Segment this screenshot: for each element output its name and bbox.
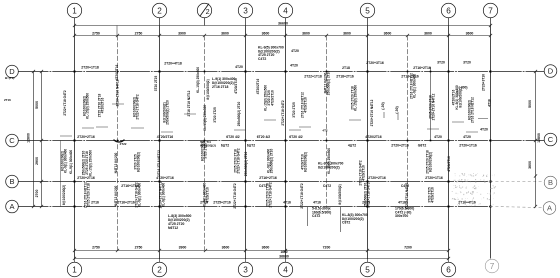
short beam lines below A (308, 207, 341, 232)
svg-text:2900: 2900 (35, 157, 39, 165)
svg-text:6ΔT2: 6ΔT2 (221, 143, 229, 147)
beam tag cluster vc B-A b (83, 182, 90, 208)
tick near x483 (478, 119, 488, 132)
axis stub 4 (top) (285, 18, 287, 26)
secondary vertical axis x=117.5 (117, 36, 119, 251)
svg-text:2T16 2T18 N2T12: 2T16 2T18 N2T12 (157, 150, 161, 176)
top overall dimension line 36600 (73, 22, 492, 28)
svg-text:2T20+3T16: 2T20+3T16 (366, 61, 384, 65)
svg-text:8@100/200(2): 8@100/200(2) (137, 152, 141, 172)
svg-text:2T22+1T18 G4T2: 2T22+1T18 G4T2 (136, 94, 140, 119)
secondary vertical axis x=326.5 (326, 36, 328, 207)
beam tag cluster vc C-B i (266, 149, 273, 174)
beam schedule block KL-300 (C-B band) (318, 162, 344, 170)
svg-text:2T18: 2T18 (342, 66, 350, 70)
svg-text:2T22+1T18 G4T2: 2T22+1T18 G4T2 (63, 90, 67, 115)
right dims 5000/3600/12800 (528, 70, 541, 208)
beam tag cluster vc B-A i (300, 183, 304, 208)
axis circle 3 (top) (238, 3, 252, 17)
beam schedule block KL-9 (D-C band) (212, 77, 235, 89)
axis stub /2 (top) (204, 18, 206, 26)
tag column x490.5 (488, 99, 492, 107)
axis circle A (left) (6, 200, 19, 213)
beam tag cluster vc D-C u (428, 93, 435, 120)
svg-text:36600: 36600 (278, 22, 288, 26)
beam tag cluster vc D-C d (115, 65, 119, 81)
svg-text:6T20 4/2: 6T20 4/2 (257, 135, 270, 139)
svg-text:4T20: 4T20 (235, 65, 243, 69)
svg-text:250x500(2) 2T20: 250x500(2) 2T20 (244, 152, 248, 177)
vertical axis line x=245.5 (245, 26, 247, 260)
beam tag cluster vc D-C g (154, 76, 158, 92)
svg-text:1: 1 (72, 6, 77, 15)
svg-text:8@100/200(2): 8@100/200(2) (304, 152, 308, 172)
beam tag cluster vc D-C j2 (206, 79, 210, 99)
svg-text:B=(T0): B=(T0) (5, 76, 14, 80)
beam tag cluster vc C-B g (233, 148, 240, 173)
svg-text:3600: 3600 (221, 32, 229, 36)
svg-text:6T20 4/2: 6T20 4/2 (289, 135, 302, 139)
svg-text:4T20: 4T20 (480, 128, 488, 132)
svg-text:300x700: 300x700 (395, 214, 408, 218)
beam labels above axis D (81, 61, 471, 70)
svg-text:4T20: 4T20 (291, 49, 299, 53)
beam labels below axis D (304, 75, 419, 79)
svg-text:8@100/200(2): 8@100/200(2) (429, 152, 433, 172)
svg-text:2T22+1T18 G4T2: 2T22+1T18 G4T2 (300, 183, 304, 208)
svg-text:2T22+1T18: 2T22+1T18 (304, 75, 322, 79)
svg-text:N6T12: N6T12 (168, 226, 178, 230)
svg-text:3900: 3900 (179, 246, 187, 250)
svg-text:4T20/2T16: 4T20/2T16 (256, 79, 260, 95)
beam labels above axis B (77, 176, 443, 180)
svg-text:C8T2: C8T2 (342, 221, 350, 225)
beam schedule block KL-8 below A (168, 214, 191, 230)
axis circle 5 (bottom) (367, 259, 369, 263)
left segment dims (35, 70, 43, 208)
svg-text:2T16: 2T16 (4, 98, 11, 102)
beam tag cluster vc B-A e (158, 181, 165, 208)
svg-text:5000: 5000 (528, 100, 532, 108)
svg-text:3T20 2T25: 3T20 2T25 (213, 107, 217, 123)
svg-text:2: 2 (157, 6, 162, 15)
svg-text:C4T2: C4T2 (258, 57, 266, 61)
axis circle 1 (top) (67, 3, 81, 17)
beam tag cluster vc B-A a (62, 185, 66, 205)
svg-text:B: B (548, 178, 553, 187)
axis line C (19, 140, 545, 142)
svg-text:4T18: 4T18 (488, 99, 492, 107)
beam tag cluster vc C-B d (133, 152, 140, 172)
svg-text:4: 4 (283, 265, 288, 274)
elevation mark (-30) x384 (381, 102, 385, 118)
svg-text:4T20: 4T20 (463, 135, 471, 139)
beam tag cluster vc D-C j (203, 105, 207, 131)
svg-text:2750: 2750 (92, 246, 100, 250)
svg-text:2T16 2T18 N2T12: 2T16 2T18 N2T12 (471, 97, 475, 123)
beam tag cluster vc D-C k (234, 78, 238, 94)
svg-text:4T20/2T16: 4T20/2T16 (101, 98, 105, 114)
svg-text:6: 6 (446, 6, 451, 15)
beam tag cluster vc D-C k2 (213, 107, 217, 123)
axis circle B (left) (6, 175, 19, 188)
partial column line x=430 (430, 67, 432, 141)
svg-text:250x500(2) 2T20: 250x500(2) 2T20 (327, 71, 331, 96)
beam tag cluster vc B-A h (265, 182, 272, 207)
svg-text:3T20: 3T20 (437, 61, 445, 65)
svg-text:3600: 3600 (343, 32, 351, 36)
axis stub 7 (top) (490, 18, 492, 26)
beam tag cluster vc B-A j (338, 184, 342, 204)
svg-text:N4T12 8@200: N4T12 8@200 (114, 185, 118, 206)
svg-text:2T20+2T16 N4T12: 2T20+2T16 N4T12 (405, 182, 409, 209)
axis circle B (right) (544, 176, 557, 189)
svg-text:6: 6 (446, 265, 451, 274)
svg-text:B: B (9, 177, 14, 186)
beam tag cluster vc D-C t (409, 73, 416, 99)
vertical axis line x=367.5 (367, 26, 369, 260)
left edge notes (4, 76, 14, 102)
axis circle 4 (top) (278, 3, 292, 17)
axis line B faint right end (490, 181, 544, 183)
beam tag cluster vc B-A f (202, 183, 209, 208)
svg-text:4T20/2T16: 4T20/2T16 (304, 97, 308, 113)
svg-text:2T25+2T16: 2T25+2T16 (213, 200, 231, 204)
svg-text:4T20/2T16: 4T20/2T16 (362, 165, 366, 181)
svg-text:KL-9(1) 300x400: KL-9(1) 300x400 (413, 74, 417, 99)
svg-text:A: A (9, 202, 14, 211)
beam schedule block below A (x395) (395, 207, 414, 219)
svg-text:2T16 2T18 N2T12: 2T16 2T18 N2T12 (187, 90, 191, 116)
axis stub 1 (top) (74, 18, 76, 26)
svg-text:7200: 7200 (404, 246, 412, 250)
svg-text:2T22+1T18 G4T2: 2T22+1T18 G4T2 (233, 183, 237, 208)
svg-text:2: 2 (206, 7, 210, 16)
svg-text:3T20 2T25: 3T20 2T25 (292, 102, 296, 118)
svg-text:3600: 3600 (262, 32, 270, 36)
beam tag cluster vc D-C h (162, 100, 169, 125)
vertical axis line x=448.5 (448, 26, 450, 260)
beam tag cluster vc C-B k (327, 148, 331, 174)
svg-text:3600: 3600 (222, 246, 230, 250)
svg-text:KL-15(3) 250x500: KL-15(3) 250x500 (88, 150, 92, 176)
axis circle C (left) (6, 134, 19, 147)
beam tag cluster vc C-B a (60, 149, 67, 174)
axis circle D (right) (544, 65, 557, 78)
beam tag cluster vc B-A k (363, 182, 370, 207)
svg-text:4T20/2T16: 4T20/2T16 (206, 187, 210, 203)
axis circle 6 (top) (441, 3, 455, 17)
svg-text:4T16: 4T16 (283, 200, 291, 204)
svg-text:3600: 3600 (528, 161, 532, 169)
svg-text:C4T2: C4T2 (323, 184, 331, 188)
svg-text:N4T12 8@200: N4T12 8@200 (114, 152, 118, 173)
svg-text:12800: 12800 (27, 133, 31, 143)
axis extension lines top (116, 26, 118, 36)
svg-text:4T20/2T16: 4T20/2T16 (431, 187, 435, 203)
beam schedule block above D (x258) (258, 46, 299, 61)
svg-text:4T22: 4T22 (119, 142, 126, 146)
svg-text:2T20+1T18: 2T20+1T18 (81, 65, 99, 69)
column nodes at grid intersections (74, 71, 492, 208)
axis circle 5 (top) (360, 3, 374, 17)
svg-text:7200: 7200 (323, 246, 331, 250)
svg-text:KL-15(3) 250x500: KL-15(3) 250x500 (354, 85, 358, 111)
axis line A (19, 206, 491, 208)
beam tag cluster vc D-C j3 (256, 79, 260, 95)
svg-text:8@100/200(2): 8@100/200(2) (458, 87, 462, 107)
axis stub 3 (top) (245, 18, 247, 26)
beam labels above axis C (77, 135, 471, 139)
svg-text:7: 7 (488, 6, 493, 15)
beam tag cluster vc D-C s (370, 99, 374, 126)
svg-text:2T20+1T16: 2T20+1T16 (425, 176, 443, 180)
svg-text:5: 5 (365, 265, 370, 274)
svg-text:2T16 2T18: 2T16 2T18 (212, 85, 229, 89)
svg-text:(-300): (-300) (458, 86, 467, 90)
vertical axis line 7 (490, 26, 492, 259)
svg-text:4: 4 (283, 6, 288, 15)
beam tag cluster vc D-C w (467, 97, 474, 123)
watermark speckles (452, 173, 496, 207)
svg-text:1650: 1650 (280, 250, 287, 254)
beam tag cluster vc B-A m (427, 187, 434, 203)
svg-text:KL-15(3) 250x500: KL-15(3) 250x500 (203, 105, 207, 131)
svg-text:4T2: 4T2 (322, 129, 328, 133)
axis circle 2 (bottom) (159, 259, 161, 263)
beam tag cluster vc D-C f (132, 94, 139, 119)
beam tag cluster vc D-C i2 (196, 67, 200, 93)
beam labels below axis C (221, 143, 477, 147)
beam schedule block KL-8 below A (x342) (342, 213, 368, 225)
axis circle 4 (bottom) (285, 259, 287, 263)
svg-text:4T20/2T16: 4T20/2T16 (270, 90, 274, 106)
rebar arc mark 4T22 below C (114, 140, 127, 146)
svg-text:2T20+2T16 N4T12: 2T20+2T16 N4T12 (432, 93, 436, 120)
svg-text:2T20+3T16: 2T20+3T16 (482, 74, 486, 91)
svg-text:250x500(2) 2T20: 250x500(2) 2T20 (166, 100, 170, 125)
svg-text:KL-9(1) 300x400: KL-9(1) 300x400 (69, 150, 73, 175)
svg-text:1: 1 (72, 265, 77, 274)
beam tag cluster vc C-B e (157, 150, 161, 176)
beam schedule block below A (x312) (312, 207, 331, 219)
svg-text:C: C (9, 136, 15, 145)
svg-text:2T20+2T16 N4T12: 2T20+2T16 N4T12 (370, 99, 374, 126)
svg-text:2: 2 (157, 265, 162, 274)
svg-text:3T20 2T25: 3T20 2T25 (204, 143, 208, 159)
beam tag cluster vc C-B l (358, 160, 365, 185)
svg-text:2T20+1T16: 2T20+1T16 (459, 143, 477, 147)
beam tag cluster vc D-C l (237, 102, 241, 127)
svg-text:250x500(2) 2T20: 250x500(2) 2T20 (270, 149, 274, 174)
beam labels above axis A (91, 200, 476, 204)
beam tag cluster vc C-B c (114, 152, 118, 173)
svg-text:4T20/2T16: 4T20/2T16 (447, 156, 451, 172)
vertical axis line x=74.5 (74, 26, 76, 260)
svg-text:6ΔT2: 6ΔT2 (247, 143, 255, 147)
svg-text:2T16: 2T16 (91, 200, 99, 204)
svg-text:C4T2: C4T2 (312, 214, 320, 218)
svg-text:2T16+2T16: 2T16+2T16 (413, 66, 431, 70)
beam labels below axis B (121, 184, 409, 188)
left edge wall line x=60 (60, 141, 62, 207)
svg-text:2750: 2750 (92, 32, 100, 36)
svg-text:4ΔT2: 4ΔT2 (348, 143, 356, 147)
beam tag cluster vc C-B j (300, 152, 307, 172)
beam tag cluster vc D-C r (350, 85, 357, 111)
tag column x484 (482, 74, 486, 91)
beam tag cluster vc D-C m (264, 85, 275, 111)
beam tag cluster vc C-B b (82, 150, 93, 176)
svg-text:2T16+2T16: 2T16+2T16 (117, 200, 135, 204)
svg-text:KL-9(1) 300x400: KL-9(1) 300x400 (64, 149, 68, 174)
svg-text:3600: 3600 (302, 32, 310, 36)
svg-text:2T20+2T16 N4T12: 2T20+2T16 N4T12 (116, 79, 120, 106)
axis stub 2 (top) (159, 18, 161, 26)
axis circle D (left) (6, 65, 19, 78)
svg-text:4T16: 4T16 (313, 200, 321, 204)
svg-text:5: 5 (365, 6, 370, 15)
svg-text:KL-9(1) 300x400: KL-9(1) 300x400 (138, 183, 142, 208)
axis circle C (right) (544, 133, 557, 146)
svg-text:D: D (9, 67, 15, 76)
beam tag cluster vc D-C q (323, 71, 330, 96)
beam tag cluster vc C-B f (200, 141, 207, 161)
svg-text:2T16+4T16: 2T16+4T16 (458, 200, 476, 204)
svg-text:8@100/200(2): 8@100/200(2) (62, 185, 66, 205)
beam tag cluster vc D-C e (116, 79, 120, 106)
svg-text:2T20+4T18: 2T20+4T18 (164, 62, 182, 66)
svg-text:2750: 2750 (135, 32, 143, 36)
leader tick lines (60, 104, 478, 136)
svg-text:4T20: 4T20 (434, 135, 442, 139)
svg-text:3600: 3600 (466, 32, 474, 36)
beam tag cluster vc C-B h (244, 152, 248, 177)
beam tag cluster vc B-A g (233, 183, 237, 208)
svg-text:2750: 2750 (135, 246, 143, 250)
axis line A faint right end (490, 207, 543, 208)
svg-text:A: A (547, 204, 552, 213)
axis circle 6 (bottom) (448, 259, 450, 263)
small dim 1650 (280, 250, 287, 254)
svg-text:KL-9(1) 300x400: KL-9(1) 300x400 (162, 183, 166, 208)
secondary vertical axis x=204.5 (204, 36, 206, 251)
svg-text:2T22+1T18 G4T2: 2T22+1T18 G4T2 (281, 100, 285, 125)
elevation mark (-300) x463 (458, 86, 468, 97)
axis circle A (right) (543, 202, 556, 215)
beam tag cluster vc D-C o (292, 102, 296, 118)
svg-text:2T16+2T16: 2T16+2T16 (259, 176, 277, 180)
axis circle 3 (bottom) (245, 259, 247, 263)
svg-text:3T20: 3T20 (463, 61, 471, 65)
svg-text:12800: 12800 (537, 133, 541, 143)
svg-text:3900: 3900 (178, 32, 186, 36)
svg-text:2T25 2T20 2T18: 2T25 2T20 2T18 (87, 183, 91, 207)
svg-text:(-30): (-30) (381, 102, 385, 109)
svg-text:3600: 3600 (262, 246, 270, 250)
svg-text:3600: 3600 (424, 32, 432, 36)
svg-text:C: C (548, 135, 554, 144)
svg-text:36600: 36600 (279, 254, 289, 258)
svg-text:4T20/2T16: 4T20/2T16 (157, 135, 174, 139)
svg-text:4T20/2T16: 4T20/2T16 (365, 135, 382, 139)
axis stub 6 (top) (448, 18, 450, 26)
axis circle 7 (top) (483, 3, 497, 17)
beam tag cluster vc B-A c (114, 185, 118, 206)
axis circle 7 (bottom, faint) (485, 259, 499, 273)
svg-text:2T22+1T18 G4T2: 2T22+1T18 G4T2 (367, 182, 371, 207)
bottom segment dimension line (73, 246, 450, 253)
svg-text:3: 3 (243, 265, 248, 274)
svg-text:(-30): (-30) (395, 106, 399, 113)
svg-text:2T20+2T16: 2T20+2T16 (391, 143, 409, 147)
beam tag cluster vc D-C n (281, 100, 285, 125)
axis circle 1 (bottom) (74, 259, 76, 263)
beam tag cluster vc D-C b (82, 93, 89, 119)
svg-text:2T22+1T18 G4T2: 2T22+1T18 G4T2 (237, 148, 241, 173)
beam tag cluster vc D-C p (300, 92, 307, 118)
beam tag cluster vc D-C c (97, 93, 104, 117)
beam tag cluster vc D-C v (452, 85, 463, 110)
axis circle 2 (top) (152, 3, 166, 17)
svg-text:3600: 3600 (384, 32, 392, 36)
svg-text:2T18+2T16: 2T18+2T16 (336, 75, 354, 79)
svg-text:250x500(2) 2T20: 250x500(2) 2T20 (237, 102, 241, 127)
vertical axis line x=159.5 (159, 26, 161, 260)
svg-text:4T20: 4T20 (290, 64, 298, 68)
svg-text:2T22+1T18 G4T2: 2T22+1T18 G4T2 (269, 182, 273, 207)
svg-text:4T20/2T16: 4T20/2T16 (115, 65, 119, 81)
beam tag cluster vc B-A d (134, 182, 141, 207)
svg-text:KL-15(3) 250x500: KL-15(3) 250x500 (86, 93, 90, 119)
beam tag cluster vc C-B a2 (69, 150, 73, 175)
beam tag cluster vc C-B m (425, 150, 432, 174)
vertical axis line x=285.5 (285, 26, 287, 260)
axis circle /2 (top) (197, 3, 211, 17)
elevation mark (-30) x398 (395, 106, 399, 120)
axis line B (19, 181, 491, 183)
left overall dim 12800 (27, 70, 36, 208)
beam tag cluster vc C-B n (447, 156, 451, 172)
svg-text:8@100/200(2): 8@100/200(2) (206, 79, 210, 99)
svg-text:5000: 5000 (35, 101, 39, 109)
axis line D (19, 71, 545, 73)
svg-text:KL-15(3) 250x500: KL-15(3) 250x500 (196, 67, 200, 93)
beam tag cluster vc D-C a (63, 90, 67, 115)
svg-text:D: D (548, 67, 554, 76)
small block below C at x200 (200, 129, 328, 148)
svg-text:2700: 2700 (35, 190, 39, 198)
svg-text:G8T2: G8T2 (418, 143, 427, 147)
top segment dimension line (73, 32, 492, 38)
svg-text:7: 7 (490, 262, 495, 271)
svg-text:8@100/200(2): 8@100/200(2) (318, 166, 340, 170)
bottom overall dimension line (73, 254, 450, 260)
svg-text:3T20 2T25: 3T20 2T25 (154, 76, 158, 92)
secondary vertical axis x=407.5 (407, 36, 409, 207)
axis stub 5 (top) (367, 18, 369, 26)
beam tag cluster vc D-C i (187, 90, 191, 116)
svg-text:6T20 4/2: 6T20 4/2 (226, 135, 239, 139)
svg-text:3: 3 (243, 6, 248, 15)
svg-text:8@100/200(2): 8@100/200(2) (338, 184, 342, 204)
svg-text:2T20+2T16: 2T20+2T16 (77, 135, 95, 139)
beam tag cluster vc B-A l (405, 182, 409, 209)
svg-text:2T20+2T16: 2T20+2T16 (368, 176, 386, 180)
